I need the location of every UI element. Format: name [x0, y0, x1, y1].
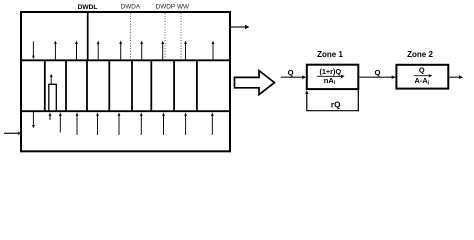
bottom band up arrow [97, 115, 99, 135]
compartment divider 2 [65, 60, 67, 111]
Zone 1 fraction bar arrow [317, 75, 342, 77]
rQ feedback right wire [357, 90, 359, 111]
outer basin rectangle [21, 12, 230, 151]
bottom band up arrow [163, 115, 165, 135]
svg-text:WW: WW [177, 4, 190, 11]
Zone 1 box [307, 65, 359, 89]
top band down arrow [32, 41, 34, 56]
bottom band up arrow [76, 115, 78, 135]
horizontal layer line (bottom of middle band) [20, 110, 231, 112]
top band up arrow [120, 43, 122, 59]
bottom band up arrow [118, 115, 120, 135]
DWDA dotted line [130, 13, 132, 60]
svg-text:nAi: nAi [324, 76, 336, 86]
svg-text:Q: Q [375, 68, 381, 77]
compartment divider 4 [108, 60, 110, 111]
wire: Zone 2 outflow arrow [449, 76, 460, 78]
svg-text:Q: Q [419, 65, 425, 74]
rQ feedback: up arrowhead into Zone 1 bottom [306, 93, 308, 111]
WW dotted line [180, 13, 182, 60]
small inner box [49, 84, 57, 111]
DWDP dotted line [164, 13, 166, 60]
wire: Zone 1 to Zone 2 arrow [359, 76, 392, 78]
svg-text:rQ: rQ [331, 100, 341, 109]
hollow block arrow [235, 71, 275, 95]
compartment divider 7 [173, 60, 175, 111]
svg-text:DWDP: DWDP [156, 4, 176, 11]
svg-text:(1+r)Q: (1+r)Q [319, 67, 341, 76]
rQ feedback bottom wire [306, 110, 359, 112]
top band up arrow [162, 43, 164, 59]
svg-text:A-Ai: A-Ai [415, 76, 430, 86]
top band up arrow [97, 43, 99, 59]
top band up arrow [141, 43, 143, 59]
bottom band up arrow [59, 115, 61, 132]
bottom band up arrow [49, 115, 51, 120]
DWDL solid divider line [87, 12, 89, 60]
top band up arrow [54, 43, 56, 59]
bottom band up arrow [185, 115, 187, 135]
svg-text:DWDL: DWDL [78, 4, 98, 11]
wire: inflow arrow into Zone 1 [281, 76, 303, 78]
bottom band down arrow [32, 112, 34, 126]
small inner box up arrow [50, 76, 52, 84]
Zone 2 box [396, 65, 448, 89]
compartment divider 5 [131, 60, 133, 111]
left inlet arrow [4, 132, 19, 134]
top band up arrow [185, 43, 187, 59]
svg-text:Zone 2: Zone 2 [407, 50, 433, 59]
top right outflow arrow [231, 26, 246, 28]
compartment divider 6 [150, 60, 152, 111]
compartment divider 3 [86, 60, 88, 111]
svg-text:Zone 1: Zone 1 [317, 50, 343, 59]
top band up arrow [76, 43, 78, 59]
bottom band up arrow [140, 115, 142, 135]
compartment divider 8 [196, 60, 198, 111]
svg-text:Q: Q [288, 68, 294, 77]
compartment divider 1 [44, 60, 46, 111]
bottom band up arrow [211, 115, 213, 135]
Zone 2 fraction bar arrow [414, 75, 430, 77]
svg-text:DWDA: DWDA [121, 4, 141, 11]
horizontal layer line (top of middle band) [20, 59, 231, 61]
top band up arrow [212, 43, 214, 59]
